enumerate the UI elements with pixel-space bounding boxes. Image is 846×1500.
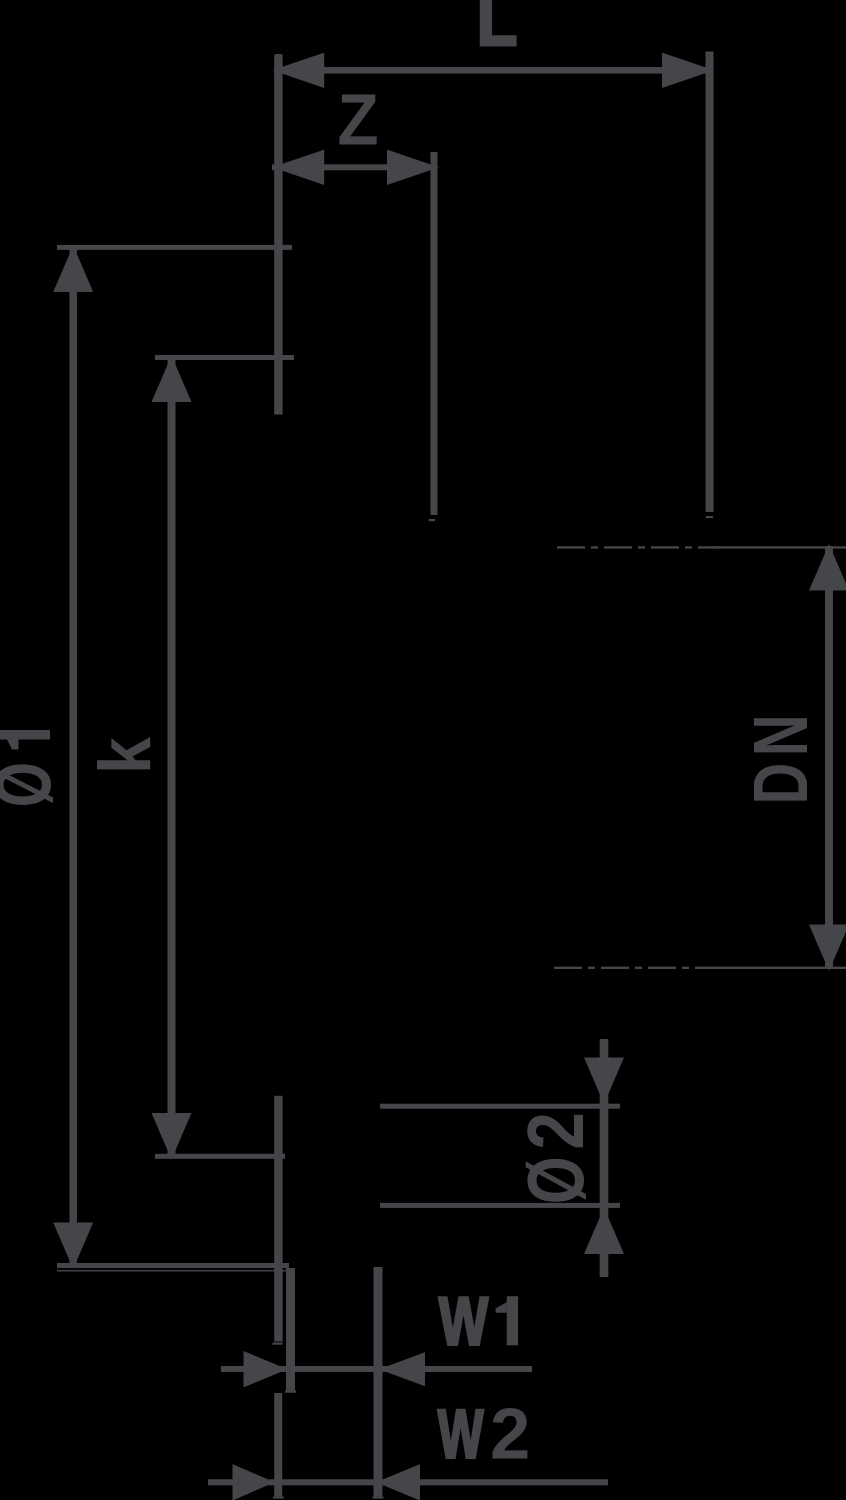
svg-text:Z: Z: [337, 79, 378, 160]
svg-text:k: k: [84, 737, 166, 774]
svg-text:W: W: [439, 1283, 489, 1359]
svg-text:W: W: [438, 1395, 484, 1473]
svg-text:Ø: Ø: [511, 1156, 601, 1204]
svg-text:2: 2: [490, 1394, 530, 1475]
svg-text:N: N: [738, 714, 824, 756]
svg-text:Ø: Ø: [0, 762, 67, 807]
svg-text:D: D: [738, 763, 824, 805]
svg-text:L: L: [477, 0, 518, 61]
svg-text:2: 2: [511, 1112, 601, 1150]
